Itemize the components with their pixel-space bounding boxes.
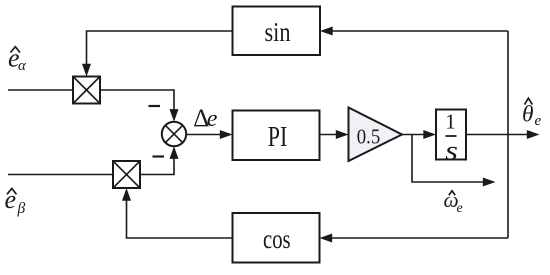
label omega_e [444, 188, 463, 216]
wire PI to gain [320, 134, 338, 136]
wire summing junction to PI [186, 134, 221, 136]
block cos [233, 213, 320, 263]
wire sin output to M1 [87, 31, 233, 65]
svg-text:s: s [445, 135, 458, 165]
svg-text:cos: cos [263, 224, 291, 254]
svg-text:sin: sin [265, 17, 291, 47]
block sin [233, 7, 321, 56]
wire feedback to cos [331, 237, 508, 239]
svg-text:θ: θ [522, 101, 534, 127]
multiplier M2 (e_beta x cos) [113, 161, 140, 188]
wire feedback vertical [507, 31, 509, 238]
minus sign lower [153, 155, 165, 157]
wire M1 output to summing junction [100, 90, 174, 110]
integrator block 1/s [436, 110, 466, 166]
multiplier M1 (e_alpha x sin) [73, 77, 100, 104]
wire integrator output to theta arrow [466, 134, 529, 136]
block PI [233, 111, 320, 161]
wire e_beta input [8, 174, 113, 176]
gain block 0.5 [349, 108, 403, 162]
wire feedback to sin [332, 30, 509, 32]
svg-text:0.5: 0.5 [357, 125, 381, 149]
wire omega branch [412, 135, 485, 183]
wire e_alpha input [8, 89, 73, 91]
svg-text:e: e [207, 106, 218, 132]
label e_beta [5, 185, 26, 217]
svg-text:e: e [535, 113, 542, 129]
svg-text:PI: PI [268, 121, 288, 153]
svg-text:α: α [18, 58, 27, 74]
wire cos output to M2 [127, 200, 233, 239]
wire gain to integrator [402, 134, 425, 136]
svg-text:e: e [457, 201, 463, 216]
minus sign upper [149, 105, 161, 107]
summing junction [162, 122, 186, 146]
svg-text:1: 1 [445, 110, 456, 134]
wire M2 output to summing junction [140, 158, 174, 175]
label theta_e [522, 98, 542, 129]
svg-text:β: β [17, 200, 26, 217]
label e_alpha [8, 44, 27, 75]
label Delta-e [193, 105, 218, 132]
